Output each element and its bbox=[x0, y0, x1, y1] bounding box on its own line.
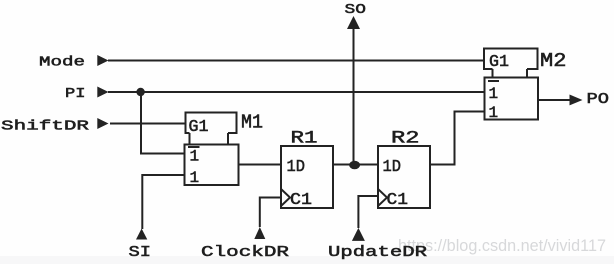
wire M1 output to R1 D bbox=[238, 164, 281, 166]
wire ShiftDR horizontal bbox=[110, 123, 186, 125]
mux M2 G1 control box (open-bottom with neck) bbox=[484, 49, 538, 70]
svg-text:https://blog.csdn.net/vivid117: https://blog.csdn.net/vivid117 bbox=[398, 236, 606, 255]
arrowhead SI up bbox=[136, 229, 147, 240]
mux M1 neck right bbox=[227, 133, 229, 145]
svg-text:C1: C1 bbox=[290, 190, 312, 209]
wire Mode horizontal bbox=[108, 60, 483, 62]
svg-text:PI: PI bbox=[65, 86, 86, 102]
clock triangle R1 C1 bbox=[281, 189, 290, 206]
arrowhead UpdateDR up bbox=[352, 228, 365, 241]
svg-text:ClockDR: ClockDR bbox=[201, 244, 289, 261]
svg-text:SI: SI bbox=[129, 244, 152, 261]
svg-text:G1: G1 bbox=[189, 117, 209, 136]
svg-text:PO: PO bbox=[587, 92, 610, 108]
mux M1 neck left bbox=[189, 133, 191, 145]
svg-text:SO: SO bbox=[345, 2, 367, 18]
clock triangle R2 C1 bbox=[378, 189, 387, 206]
wire M2 output to PO bbox=[538, 99, 571, 101]
svg-text:1: 1 bbox=[489, 85, 499, 103]
svg-text:Mode: Mode bbox=[39, 55, 85, 71]
svg-text:1: 1 bbox=[489, 104, 499, 122]
wire PI drop to M1 top input bbox=[141, 92, 185, 154]
arrowhead ShiftDR input bbox=[97, 118, 108, 129]
mux M2 body bbox=[485, 78, 539, 120]
arrowhead SO up bbox=[347, 16, 360, 29]
overbar for 1-bar M2 bbox=[488, 80, 499, 82]
junction dot PI branch bbox=[136, 88, 144, 96]
svg-text:M1: M1 bbox=[241, 112, 263, 134]
svg-text:C1: C1 bbox=[387, 190, 409, 209]
svg-text:1D: 1D bbox=[287, 157, 306, 176]
svg-text:1D: 1D bbox=[383, 157, 402, 176]
wire R1 output to R2 D bbox=[333, 164, 379, 166]
svg-text:1: 1 bbox=[190, 148, 200, 166]
svg-text:1: 1 bbox=[190, 169, 200, 187]
wire UpdateDR riser to R2 clock bbox=[358, 196, 379, 228]
wire ClockDR riser to R1 clock bbox=[260, 198, 281, 228]
arrowhead PO output bbox=[570, 95, 583, 106]
arrowhead ClockDR up bbox=[254, 227, 265, 239]
junction dot R1-R2-SO bbox=[349, 161, 360, 170]
flip-flop R2 body bbox=[378, 146, 430, 208]
flip-flop R1 body bbox=[281, 146, 333, 208]
arrowhead PI input bbox=[97, 87, 108, 98]
svg-text:M2: M2 bbox=[540, 50, 567, 72]
mux M2 neck left bbox=[492, 69, 494, 78]
arrowhead Mode input bbox=[97, 55, 108, 66]
svg-text:R2: R2 bbox=[391, 129, 420, 149]
svg-text:ShiftDR: ShiftDR bbox=[1, 119, 90, 135]
wire SO vertical bbox=[353, 28, 355, 165]
svg-text:R1: R1 bbox=[291, 129, 318, 149]
mux M2 neck right bbox=[526, 69, 528, 78]
wire PI horizontal bbox=[108, 91, 485, 93]
mux M1 body bbox=[185, 145, 239, 186]
mux M1 G1 control box (open-bottom with neck) bbox=[186, 113, 237, 134]
overbar for 1-bar M1 bbox=[188, 146, 200, 148]
wire R2 output up to M2 input bbox=[430, 112, 485, 165]
svg-text:UpdateDR: UpdateDR bbox=[328, 244, 427, 261]
svg-text:G1: G1 bbox=[489, 52, 509, 71]
wire SI riser to M1 bottom input bbox=[142, 175, 185, 229]
